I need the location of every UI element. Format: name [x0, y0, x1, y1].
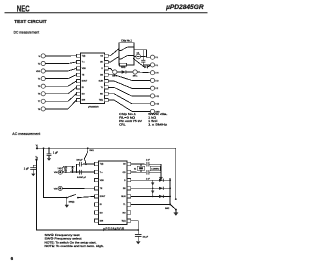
svg-text:10 μF: 10 μF — [143, 237, 149, 239]
input terminal J4 — [38, 77, 45, 81]
svg-text:µPD2845GR: µPD2845GR — [88, 106, 99, 108]
svg-text:Chip No.1: Chip No.1 — [121, 39, 132, 42]
output terminal K3 — [150, 71, 159, 75]
svg-text:µPD2845GR: µPD2845GR — [103, 227, 125, 231]
switch SW2 — [165, 204, 177, 211]
notes — [45, 233, 105, 248]
ground below SW2 — [174, 210, 179, 216]
op-amp U2 (uPD2845GR DIP-16, AC test) — [94, 161, 130, 225]
svg-text:TEST CIRCUIT: TEST CIRCUIT — [14, 19, 47, 25]
wire J5 to U1 pin 5 — [45, 81, 76, 86]
ground below C3 — [31, 174, 35, 177]
svg-text:DC measurement: DC measurement — [14, 30, 40, 35]
svg-text:1 5nF: 1 5nF — [148, 119, 158, 123]
svg-text:VIN: VIN — [54, 188, 58, 190]
input terminal J1 — [38, 54, 45, 58]
wire J8 to U1 pin 8 — [45, 100, 76, 109]
input terminal J3 — [36, 69, 45, 73]
switch SW(1) — [66, 194, 95, 203]
svg-text:SW(1): SW(1) — [69, 202, 75, 204]
svg-text:T x: T x — [100, 172, 103, 174]
probe terminal P2 — [133, 70, 137, 78]
svg-text:TL: TL — [123, 204, 125, 206]
wire U1 pin10 to SW box — [108, 57, 119, 62]
svg-text:I IZ: I IZ — [155, 88, 159, 90]
node junctions — [152, 179, 171, 197]
svg-text:TL: TL — [101, 87, 103, 89]
svg-text:Pin omit 75 3V: Pin omit 75 3V — [119, 119, 142, 123]
svg-text:µPD2845GR: µPD2845GR — [165, 4, 204, 11]
svg-text:I IL: I IL — [155, 57, 158, 59]
resistor R2 1k — [58, 166, 65, 172]
svg-text:I IH: I IH — [155, 73, 159, 75]
diode D1 — [117, 70, 133, 73]
frequency label box 4.19MHz — [150, 166, 160, 171]
wire VIN2 to U2 pin4 — [62, 187, 94, 189]
node GND terminal — [35, 157, 38, 161]
svg-text:VIN: VIN — [54, 172, 58, 174]
wire clamp rail — [63, 165, 75, 167]
svg-text:SW a: SW a — [133, 76, 137, 78]
wire J2 to U1 pin 2 — [45, 62, 76, 64]
op-amp U1 (uPD2845GR DIP-16, DC test) — [76, 53, 108, 103]
svg-text:NEC: NEC — [17, 4, 30, 13]
input terminal J7 — [38, 99, 45, 103]
svg-text:SW1: SW1 — [89, 150, 94, 152]
svg-text:I IO: I IO — [155, 80, 159, 82]
signal terminal VIN2 — [54, 186, 63, 190]
switch arm box to D2 — [133, 58, 144, 67]
svg-text:0.0047 μF: 0.0047 μF — [77, 177, 87, 179]
svg-text:VDD: VDD — [36, 71, 41, 73]
svg-text:DOUT: DOUT — [82, 81, 88, 83]
svg-text:T8: T8 — [38, 109, 41, 111]
svg-text:1 μF: 1 μF — [53, 151, 59, 154]
svg-text:I IL: I IL — [155, 65, 158, 67]
test conditions table — [119, 112, 168, 126]
wire GND vertical to bottom rail — [37, 160, 139, 230]
output terminal K4 — [150, 78, 159, 82]
wire J3 to U1 pin 3 — [45, 68, 76, 71]
svg-text:AC measurement: AC measurement — [12, 131, 41, 136]
capacitor C6 — [146, 159, 161, 166]
wire U2 pin11 to SW2 — [131, 204, 171, 206]
svg-text:1 kΩ: 1 kΩ — [58, 168, 63, 170]
meter M1 — [136, 51, 141, 58]
wire J4 to U1 pin 4 — [45, 75, 76, 79]
wire U1 pin12 to K4 — [108, 75, 150, 81]
output terminal K5 — [150, 86, 159, 90]
svg-text:O2: O2 — [123, 164, 126, 166]
svg-text:O2: O2 — [100, 55, 103, 57]
diode D6 on rung — [159, 179, 163, 182]
svg-text:Chip No.1: Chip No.1 — [119, 112, 137, 116]
wire U2 pin15 to X1 net — [131, 171, 146, 173]
svg-text:SW b: SW b — [112, 76, 116, 78]
wire VIN1 to U2 pin2 — [62, 171, 94, 173]
svg-text:T6: T6 — [38, 94, 41, 96]
switch SW1 to rail — [85, 147, 95, 165]
diode D4 clamp — [71, 166, 74, 173]
wire U1 pin16 to K8 — [108, 100, 150, 111]
capacitor C2 1uF — [47, 147, 59, 158]
input terminal J2 — [38, 61, 45, 65]
svg-text:SWR dia.: SWR dia. — [148, 112, 168, 116]
capacitor C8 10uF — [135, 235, 149, 242]
wire box top to C1 — [134, 50, 150, 58]
svg-text:T7: T7 — [38, 101, 41, 103]
wire U2 pin9 to ground node — [131, 221, 138, 235]
wire J6 to U1 pin 6 — [45, 87, 76, 94]
node branch — [43, 147, 45, 149]
svg-text:750Ω: 750Ω — [121, 67, 126, 69]
diode D7 on rung — [159, 187, 163, 190]
capacitor C1 — [141, 50, 150, 65]
svg-text:mA: mA — [137, 51, 140, 54]
wire U1 pin11 to P1 — [108, 68, 113, 71]
output terminal K6 — [150, 94, 159, 98]
ground below C2 — [47, 158, 51, 160]
svg-text:1 x 5MHz: 1 x 5MHz — [148, 122, 168, 126]
capacitor C3 1uF — [24, 165, 37, 173]
svg-text:SLIN: SLIN — [99, 81, 104, 83]
capacitor C5 (in pin2 wire) — [77, 170, 87, 179]
wire J7 to U1 pin 7 — [45, 94, 76, 102]
capacitor C7 — [146, 170, 161, 180]
wire rung KO2 — [131, 187, 170, 189]
output terminal K8 — [150, 109, 160, 113]
signal terminal VIN1 — [54, 170, 63, 174]
output terminal K7 — [150, 102, 159, 106]
input terminal J5 — [38, 84, 45, 88]
header rule — [5, 12, 208, 14]
probe terminal P1 — [112, 70, 117, 78]
svg-text:TI(1): TI(1) — [122, 220, 126, 222]
svg-text:1 kΩ: 1 kΩ — [148, 116, 156, 120]
wire ladder right rail — [169, 178, 171, 205]
node Vcc — [36, 146, 39, 150]
wire box to meter — [134, 56, 136, 58]
svg-text:I O2: I O2 — [155, 104, 159, 106]
svg-text:T4: T4 — [38, 79, 41, 81]
svg-text:T5: T5 — [38, 86, 41, 88]
crystal X1 — [134, 164, 145, 172]
svg-text:T(1): T(1) — [100, 164, 104, 166]
wire U1 pin14 to K6 — [108, 87, 150, 96]
diode D2 — [144, 66, 150, 69]
capacitor C4 (to pin1) — [76, 159, 94, 166]
svg-text:VDD: VDD — [82, 68, 87, 70]
diode D8 on rung — [159, 195, 163, 198]
svg-text:CRL: CRL — [119, 122, 126, 126]
node rail end — [175, 198, 177, 200]
svg-text:TI(1): TI(1) — [99, 100, 103, 102]
svg-text:1 nF: 1 nF — [146, 159, 151, 161]
svg-text:100 pF: 100 pF — [76, 159, 83, 161]
wire branch up to C4 — [77, 164, 80, 172]
wire rung KO3 — [131, 195, 170, 197]
wire branch to SW1 row — [44, 148, 67, 197]
wire ladder left rail — [152, 180, 154, 196]
input terminal J8 — [38, 107, 45, 111]
diode D9 in left rail — [151, 183, 154, 186]
wire U1 pin13 to K5 — [108, 81, 150, 88]
output terminal K1 — [150, 55, 158, 59]
wire Vcc rail — [37, 148, 176, 199]
svg-text:DOUT: DOUT — [100, 196, 106, 198]
node branch — [76, 171, 78, 173]
input terminal J6 — [38, 92, 45, 96]
wire U1 pin15 to K7 — [108, 94, 150, 104]
ground below C8 — [136, 241, 141, 244]
svg-text:RL=3 kΩ: RL=3 kΩ — [119, 116, 135, 120]
resistor R1 at box bottom — [120, 63, 127, 69]
svg-text:VDD: VDD — [100, 180, 105, 182]
svg-text:I O1: I O1 — [155, 96, 159, 98]
output terminal K2 — [150, 63, 158, 67]
svg-text:Vi: Vi — [38, 56, 40, 58]
wire U2 pin16 to X1 net — [131, 163, 146, 165]
svg-text:T2: T2 — [38, 63, 41, 65]
svg-text:T x: T x — [82, 62, 85, 64]
wire J1 to U1 pin 1 — [45, 55, 76, 57]
svg-text:SW2: SW2 — [165, 208, 170, 210]
wire X net right side — [160, 164, 162, 172]
svg-text:6: 6 — [11, 256, 14, 261]
wire P2 to K3 — [137, 71, 150, 74]
wire crystal net down to rung1 with diode D5 — [159, 172, 162, 180]
wire U1 pin9 to SW box — [108, 49, 119, 56]
diode D3 clamp — [65, 166, 68, 173]
wire meter to K1 — [141, 56, 147, 58]
diode D10 in left rail — [151, 191, 154, 194]
wire rung KO1 — [131, 179, 170, 181]
switch box SW A (Chip No.1) — [119, 39, 134, 65]
svg-text:1 μF: 1 μF — [24, 168, 30, 171]
node bottom rail junction — [137, 229, 139, 231]
svg-text:X1: X1 — [134, 168, 136, 170]
ground below SW(1) — [65, 198, 69, 208]
svg-text:4.19MHz: 4.19MHz — [151, 169, 159, 171]
svg-text:NOTE: To override and turn te: NOTE: To override and turn term. High. — [45, 244, 105, 248]
svg-text:SLIN: SLIN — [121, 196, 126, 198]
svg-text:T(1): T(1) — [82, 55, 86, 57]
